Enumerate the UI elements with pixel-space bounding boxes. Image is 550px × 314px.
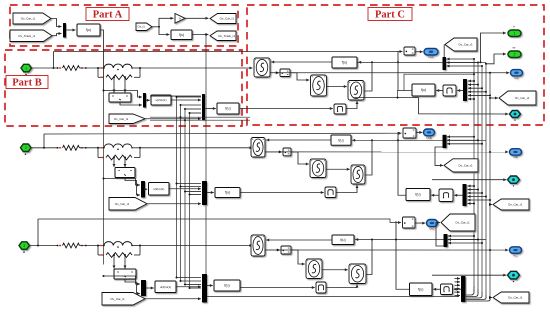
phase A state mux junction 1 <box>473 80 475 82</box>
svg-text:2: 2 <box>25 146 27 150</box>
phase B wire ratio to big mux <box>169 188 201 190</box>
svg-text:Ov_Track_i1: Ov_Track_i1 <box>18 34 35 38</box>
wire green out 2 feed <box>486 54 506 64</box>
phase A red terminal mark inductor <box>100 67 102 68</box>
phase B saturation block <box>325 187 336 198</box>
svg-text:IsA: IsA <box>514 76 518 80</box>
svg-text:Ov_Car_i1: Ov_Car_i1 <box>458 163 473 167</box>
junction torque line at up wire <box>397 97 399 99</box>
phase A wire up to distribution line <box>53 52 55 69</box>
phase C chain mux left stub 6 <box>455 295 461 297</box>
phase B wire tap R to block <box>124 158 126 168</box>
phase B product small <box>283 148 291 156</box>
phase A wire tap L to block <box>113 77 115 92</box>
phase A wire shaper to chain fcn <box>436 90 443 92</box>
phase C integrator 1 <box>251 235 265 256</box>
phase B big mux <box>202 181 207 205</box>
phase C junction RL split <box>97 245 99 247</box>
wire Ov_i1 to branch <box>152 26 159 28</box>
phase A goto mux input 3 <box>447 65 483 67</box>
phase A state mux input 5 <box>468 94 490 96</box>
phase B wire integrator3 feedback up <box>365 140 372 175</box>
phase B wire from input port <box>31 147 57 149</box>
phase B wire fcn feedback to integrator1 <box>266 139 331 141</box>
phase C inductor L3 <box>104 242 132 246</box>
phase C wire Part B fcn to saturation <box>240 287 315 289</box>
phase B junction feed at up wire <box>397 139 399 141</box>
phase B wire shaper to chain fcn <box>431 194 439 196</box>
phase B fcn f(u) <box>215 188 240 198</box>
phase B integrator 1 <box>251 138 265 158</box>
phase C goto mux input 2 <box>448 239 478 241</box>
phase A input port 1 <box>21 64 32 72</box>
phase A goto tag Ov_Car_i1 inner <box>445 38 477 51</box>
phase A saturation block <box>334 104 346 114</box>
phase B wire inductor to merge <box>132 147 140 149</box>
svg-text:f(u): f(u) <box>415 193 420 197</box>
phase B wire integrator2 to integrator3 <box>326 168 350 170</box>
junction Ov_i1 branch <box>158 26 160 28</box>
phase C wire state mux to shaper <box>454 288 461 290</box>
svg-text:2: 2 <box>514 53 516 57</box>
green output port 2 <box>508 51 521 58</box>
phase A state mux input 6 <box>468 98 474 100</box>
wire tag2 to mux A <box>52 34 62 36</box>
phase A state mux input 2 <box>468 84 478 86</box>
phase C chain mux left stub 2 <box>455 281 461 283</box>
phase A cyan port <box>510 111 521 118</box>
phase C wire fcn feedback to integrator1 <box>266 239 332 241</box>
phase C wire from tag to big mux <box>145 298 201 300</box>
phase B input port label mark <box>25 154 27 156</box>
junction v3 line b <box>184 119 186 121</box>
phase A wire to cyan port <box>419 98 509 114</box>
phase C measurement block <box>114 269 136 279</box>
wire fcn U1 bus down phases <box>103 91 105 265</box>
phase C jog junction 1 <box>176 277 178 279</box>
phase C chain mux left stub 5 <box>455 291 461 293</box>
svg-text:UsB: UsB <box>426 136 431 140</box>
phase B measurement block marks <box>118 170 119 171</box>
svg-text:Ov_Car_i1: Ov_Car_i1 <box>110 297 125 301</box>
phase B state mux input 3 <box>468 192 483 194</box>
svg-text:UsC: UsC <box>429 227 434 231</box>
phase C bottom long line <box>207 296 459 298</box>
svg-text:Part B: Part B <box>12 78 41 89</box>
phase C junction outer goto <box>489 297 491 299</box>
phase B wire chain fcn up to product <box>398 132 406 195</box>
wire bus from Part A down to phase muxes <box>205 35 207 275</box>
phase C wire ratio to big mux <box>176 286 201 288</box>
phase B goto mux input 2 <box>447 139 478 141</box>
phase A big mux jog 4 <box>190 112 202 114</box>
phase C goto tag Ov_Car_i1 outer <box>493 292 529 303</box>
phase B junction at distribution takeoff <box>43 147 45 149</box>
bus line v1 (x176.5) <box>176 97 178 278</box>
phase B ratio block u(2)/u(1) <box>149 183 170 196</box>
phase B wire RL split vertical <box>97 148 99 158</box>
phase C junction feed at up wire <box>395 239 397 241</box>
phase C goto mux <box>444 234 448 247</box>
phase C wire saturation to integrator3 <box>326 285 357 288</box>
phase A jog junction 1 <box>176 96 178 98</box>
svg-text:3: 3 <box>23 244 25 248</box>
phase B wire RL merge vertical <box>139 148 141 158</box>
phase B goto mux junction 2 <box>477 139 479 141</box>
phase A wire to outer goto <box>490 97 498 99</box>
phase B goto tag Ov_Car_i1 inner <box>444 159 478 172</box>
phase A goto mux junction 1 <box>473 58 475 60</box>
svg-text:UsA: UsA <box>428 55 433 59</box>
phase B goto mux input 3 <box>447 143 482 145</box>
phase A chain fcn f(u) <box>412 84 435 96</box>
phase A fcn f(u) <box>217 103 239 114</box>
phase A series resistor R1 <box>63 66 80 71</box>
green output port 1 <box>508 30 521 37</box>
svg-text:u(2)/u(1): u(2)/u(1) <box>160 285 171 289</box>
phase A wire bottom branch lead <box>98 76 104 78</box>
phase B junction current tap at integrator output <box>279 151 281 153</box>
phase B wire mux1 to ratio block <box>145 188 147 190</box>
phase C wire RL merge vertical <box>139 246 141 256</box>
goto tag Ov_Car_i1 (Part A) <box>210 14 236 24</box>
phase B cyan port label mark <box>513 185 514 186</box>
phase C wire feedback feed line <box>355 239 486 241</box>
phase B chain shaper block <box>439 189 453 202</box>
phase C wire integrator3 feedback up <box>366 240 372 275</box>
phase C chain mux left stub 1 <box>455 278 461 280</box>
phase B fcn f(u) feedback <box>331 135 351 145</box>
bus line v3 (x185) <box>184 109 186 285</box>
phase C red terminal mark series R right <box>81 245 83 246</box>
phase B state mux <box>463 184 467 206</box>
phase A state mux junction 3 <box>481 87 483 89</box>
wire branch down to fcn U2 <box>159 27 170 35</box>
phase A junction tap L <box>113 76 115 78</box>
phase A integrator 3 <box>348 81 364 101</box>
phase A red terminal mark parallel R <box>101 77 103 78</box>
svg-text:Ov_Car_i1: Ov_Car_i1 <box>508 203 523 207</box>
Part C label box <box>368 8 412 21</box>
phase A wire parallel R to merge <box>134 76 140 78</box>
phase A goto mux <box>443 57 447 70</box>
svg-text:IsC: IsC <box>513 253 517 257</box>
junction fcn U2 output <box>205 34 207 36</box>
phase A chain shaper block <box>443 85 456 96</box>
phase C junction current line at bus <box>489 249 491 251</box>
phase A wire RL merge vertical <box>139 68 141 77</box>
phase C wire parallel R to merge <box>134 254 140 256</box>
phase B junction feedback on f line <box>371 139 373 141</box>
right bus vertical line 1 (x474) <box>473 59 475 287</box>
phase A wire product to integrator2 <box>290 73 309 80</box>
phase C bus bend into mux 4 <box>466 295 486 300</box>
junction green2 takeoff <box>485 63 487 65</box>
phase B series resistor R2 <box>63 145 80 150</box>
phase B goto mux input 1 <box>447 136 474 138</box>
svg-text:f(u): f(u) <box>179 33 184 37</box>
phase C junction RL merge <box>139 245 141 247</box>
phase B parallel resistor R2p <box>106 155 132 160</box>
phase C goto mux input 3 <box>448 242 482 244</box>
phase C wire integrator2 to integrator3 <box>322 269 348 271</box>
gain block K (Part A) <box>175 14 185 24</box>
svg-text:Part C: Part C <box>375 10 405 21</box>
phase B wire fcn U1 bus feed to mux1 <box>104 179 141 186</box>
phase A wire RL output to integrator <box>140 67 253 69</box>
wire fcn U1 output down <box>100 30 104 91</box>
phase B wire integrator1 to product <box>265 151 282 153</box>
phase A wire chain fcn up to product <box>398 51 412 91</box>
svg-text:f(u): f(u) <box>338 138 343 142</box>
fcn f(u) U2 (Part A) <box>171 30 192 40</box>
phase C cyan port label mark <box>513 281 514 282</box>
svg-text:IsB: IsB <box>513 155 517 159</box>
phase C wire product to integrator2 <box>291 250 305 264</box>
phase B inductor L2 <box>104 144 132 148</box>
phase B goto tag Ov_Car_i1 outer <box>493 199 529 210</box>
phase B red terminal mark series R right <box>81 147 83 148</box>
phase C junction feedback on f line <box>371 239 373 241</box>
phase C big mux <box>202 274 207 303</box>
phase B wire product to integrator2 <box>291 152 309 164</box>
phase B wire to current port <box>280 151 509 153</box>
phase C goto mux junction 2 <box>477 239 479 241</box>
phase A measurement block <box>109 93 131 102</box>
phase A wire state mux to shaper <box>457 90 463 92</box>
phase A current port IsA <box>511 70 523 80</box>
phase C state mux <box>461 276 466 302</box>
phase C wire RL split vertical <box>97 246 99 256</box>
phase B big mux jog 4 <box>190 194 202 196</box>
phase A ratio block u(2)/u(1) <box>151 95 171 105</box>
phase C chain mux left stub 3 <box>455 284 461 286</box>
phase B goto mux junction 1 <box>473 136 475 138</box>
phase A big mux jog 3 <box>185 108 201 110</box>
phase C goto tag Ov_Car_i1 inner <box>441 214 475 231</box>
phase C wire from input port <box>30 245 58 247</box>
phase C terminal dot series R left <box>57 245 59 247</box>
right bus vertical line 5 (x490) <box>489 72 491 298</box>
phase B state mux input 6 <box>468 203 475 205</box>
phase C wire to current port <box>278 249 509 251</box>
phase B wire tap L to block <box>113 158 115 168</box>
phase B junction outer goto <box>489 204 491 206</box>
phase C wire chain fcn up to product <box>396 221 410 289</box>
phase A big mux <box>202 94 205 120</box>
Part C dashed boundary <box>247 5 544 125</box>
phase C measurement block marks <box>117 271 118 272</box>
svg-text:Ov_i1: Ov_i1 <box>138 25 146 29</box>
svg-text:f(u): f(u) <box>340 238 345 242</box>
wire fcn U2 to goto Ov_Track_i1 <box>192 34 209 36</box>
phase C chain fcn f(u) <box>410 283 433 296</box>
phase C wire to cyan port <box>432 274 506 276</box>
phase A wire fcn feedback to integrator1 <box>271 61 332 63</box>
phase B wire parallel R to merge <box>134 157 140 159</box>
phase A mux1 <box>143 93 146 108</box>
phase B terminal dot series R left <box>57 147 59 149</box>
phase B wire up to distribution line <box>43 134 45 148</box>
svg-text:Ov_Car_i1: Ov_Car_i1 <box>220 17 235 21</box>
phase C bus bend into mux 2 <box>466 289 478 297</box>
phase A inductor L1 <box>104 64 132 68</box>
phase C junction at distribution takeoff <box>37 245 39 247</box>
phase A wire mux1 to ratio block <box>146 99 150 101</box>
phase A fcn out auxiliary line <box>404 74 474 90</box>
phase A junction fcn U1 bus <box>103 90 105 92</box>
phase A junction RL merge <box>139 67 141 69</box>
phase B red terminal mark series R left <box>59 147 61 148</box>
phase B wire to cyan port <box>432 179 506 181</box>
phase B state mux input 2 <box>468 189 479 191</box>
phase C wire big mux to fcn <box>207 285 213 287</box>
phase C jog junction 3 <box>184 284 186 286</box>
phase B goto mux to inner goto <box>435 147 443 165</box>
phase A wire inductor to merge <box>132 67 140 69</box>
phase A junction RL split <box>97 67 99 69</box>
phase C big mux jog 4 <box>190 287 202 289</box>
phase C wire fcn U1 bus feed to mux1 <box>104 276 141 284</box>
phase B state mux input 4 <box>468 196 487 198</box>
phase C bus bend into mux 3 <box>466 292 482 298</box>
svg-text:u(2)/u(1): u(2)/u(1) <box>155 98 166 102</box>
phase C saturation block <box>316 282 326 293</box>
svg-text:Part A: Part A <box>93 10 123 21</box>
phase C wire to outer goto <box>490 297 492 299</box>
svg-text:Ov_Car_i1: Ov_Car_i1 <box>21 17 36 21</box>
wire wr line to green out 1 <box>357 61 481 63</box>
phase B wire Part B fcn to saturation <box>240 192 324 194</box>
phase A wire integrator2 to integrator3 <box>327 86 347 88</box>
phase A junction feedback on f line <box>371 61 373 63</box>
phase C wire product to voltage port <box>415 222 425 224</box>
phase B jog junction 4 <box>189 194 191 196</box>
phase C junction tap L <box>113 254 115 256</box>
phase A wire from input port <box>32 67 58 69</box>
phase B integrator 3 <box>351 165 365 184</box>
phase C goto mux input 1 <box>448 235 474 237</box>
phase B big mux jog 3 <box>185 191 201 193</box>
wire mux A to fcn <box>66 29 76 31</box>
svg-text:1: 1 <box>514 32 516 36</box>
phase C voltage product <box>403 217 416 228</box>
phase C bus bend into mux 5 <box>466 298 490 301</box>
phase A voltage product <box>404 47 415 55</box>
phase C big mux jog 2 <box>181 280 202 282</box>
wire phase A goto mux up to inner goto <box>443 45 445 58</box>
phase C input port 3 <box>19 242 30 250</box>
svg-text:Ov_Car_i1: Ov_Car_i1 <box>115 202 130 206</box>
phase B red terminal mark parallel R <box>101 157 103 158</box>
phase B junction fcn U1 bus <box>103 178 105 180</box>
phase A torque line <box>353 97 419 99</box>
phase C wire inductor to merge <box>132 245 140 247</box>
phase C wire resistor to RL branch <box>80 245 99 247</box>
phase B mux1 <box>141 181 145 198</box>
phase A jog junction 2 <box>180 104 182 106</box>
phase C parallel resistor R3p <box>106 253 132 258</box>
phase C from tag Ov_Car_i1 <box>102 293 145 306</box>
bus line v4 (x189.5) <box>189 113 191 288</box>
phase A product small <box>280 69 290 77</box>
phase B wire big mux to fcn <box>207 192 214 194</box>
phase A junction current line at bus <box>489 72 491 74</box>
phase A wire integrator1 to product <box>270 72 279 74</box>
phase B big mux jog 1 <box>177 183 202 185</box>
phase A long line b (y120.2) <box>150 119 250 121</box>
phase A measurement block marks <box>112 95 113 96</box>
svg-text:Ov_Car_i1: Ov_Car_i1 <box>458 43 473 47</box>
phase C wire mux1 to ratio block <box>146 287 154 289</box>
phase B junction tap L <box>113 157 115 159</box>
phase B junction RL merge <box>139 147 141 149</box>
phase A state mux junction 4 <box>485 91 487 93</box>
junction auxiliary at bus <box>473 73 475 75</box>
phase C distribution line <box>38 219 401 223</box>
phase B voltage product <box>403 128 416 138</box>
phase C ratio block u(2)/u(1) <box>155 281 176 293</box>
phase B wire product to voltage port <box>416 131 422 133</box>
phase B input port 2 <box>21 144 32 152</box>
svg-text:f(u): f(u) <box>86 28 91 32</box>
phase C integrator 3 <box>349 264 366 284</box>
phase A goto mux junction 2 <box>477 62 479 64</box>
phase C wire tap L to block <box>113 255 115 269</box>
phase B state mux input 1 <box>468 185 475 187</box>
phase A cyan port label mark <box>514 119 515 120</box>
phase B state mux junction 5 <box>489 199 491 201</box>
phase C jog junction 4 <box>189 287 191 289</box>
phase A terminal dot series R left <box>57 67 59 69</box>
phase B goto mux junction 3 <box>481 143 483 145</box>
phase C wire block bottom loop to mux1 <box>125 279 140 294</box>
Part B dashed boundary <box>5 50 242 126</box>
phase B state mux junction 1 <box>473 185 475 187</box>
mux A (Part A) <box>63 23 66 38</box>
phase C chain shaper block <box>441 284 453 295</box>
phase C wire up to distribution line <box>37 219 39 246</box>
svg-text:f(u): f(u) <box>421 88 426 92</box>
phase A wire top branch lead <box>98 67 104 69</box>
Part A dashed boundary <box>10 5 238 46</box>
from tag Ov_i1 (Part A) <box>136 23 152 31</box>
phase A from tag Ov_Car_i1 <box>109 114 145 124</box>
phase C red terminal mark inductor <box>100 245 102 246</box>
goto tag Ov_Track_i1 (Part A) <box>210 31 236 41</box>
phase A junction tap R <box>124 76 126 78</box>
phase A wire fcn U1 bus feed to mux1 <box>104 91 143 98</box>
phase A big mux top line <box>150 95 201 97</box>
phase A long line a (y117.2) <box>150 116 250 118</box>
phase B state mux junction 3 <box>481 192 483 194</box>
phase A state mux junction 5 <box>489 94 491 96</box>
phase A state mux input 3 <box>468 87 482 89</box>
wire gain to goto Ov_Car_i1 <box>185 17 209 19</box>
junction green1 takeoff <box>480 61 482 63</box>
phase C voltage port UsC <box>427 220 438 231</box>
phase C junction fcn U1 bus <box>103 275 105 277</box>
phase C red terminal mark series R left <box>59 245 61 246</box>
phase A wire RL split vertical <box>97 68 99 77</box>
phase A goto mux input 1 <box>447 58 475 60</box>
phase A wire to current port <box>277 72 510 74</box>
phase A goto tag Ov_Car_i1 outer <box>499 91 536 105</box>
phase C junction current tap at integrator output <box>277 249 279 251</box>
svg-text:wr: wr <box>513 46 516 50</box>
phase B terminal dot series R right <box>85 147 87 149</box>
phase C chain mux left stub 4 <box>455 288 461 290</box>
